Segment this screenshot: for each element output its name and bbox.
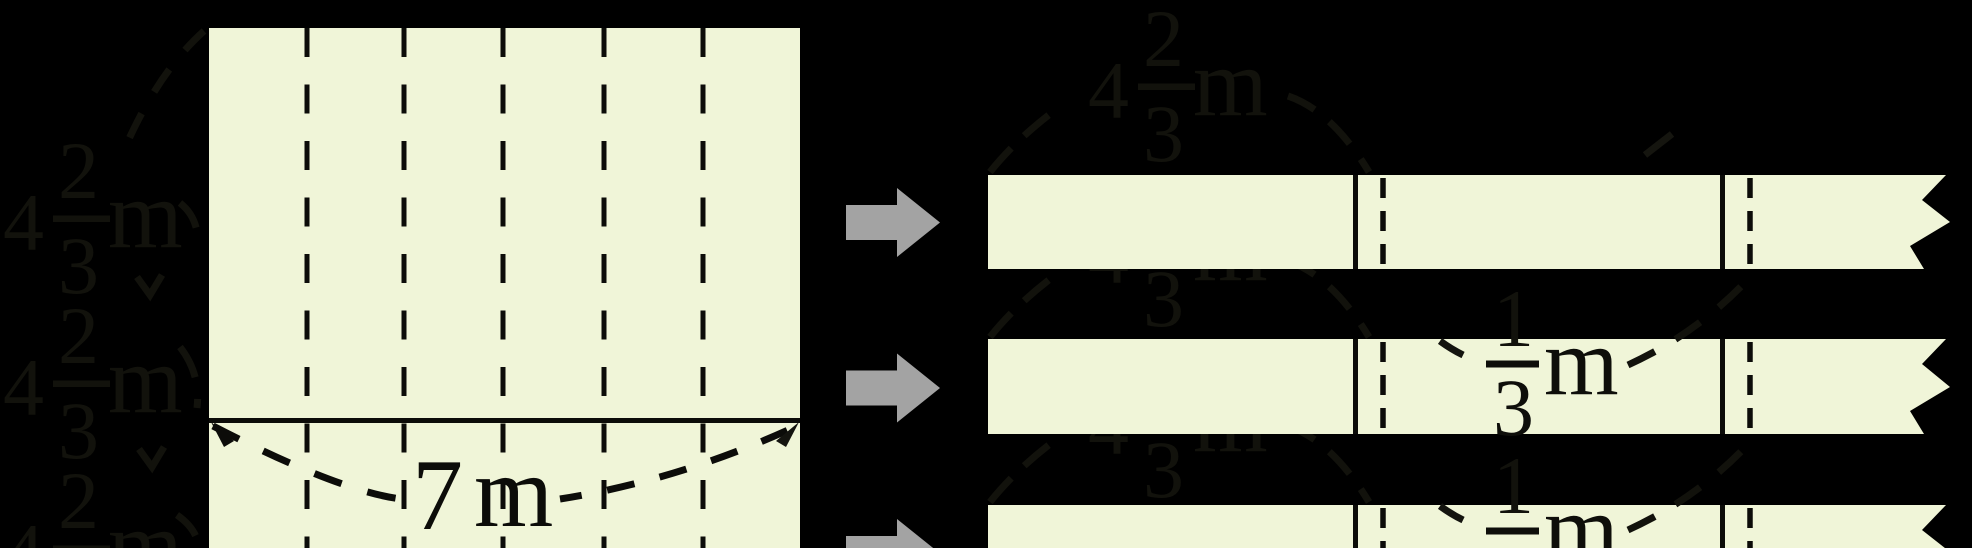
row3 1/3 arc left dash	[1440, 506, 1484, 528]
svg-text:4: 4	[3, 177, 44, 268]
left label row1: 4 2/3 m	[3, 125, 183, 311]
strip1 solid divider 1	[1353, 175, 1358, 269]
row2 label 4 2/3 m (top hidden behind strip 1)	[1088, 158, 1268, 344]
gray arrow 3 (cut)	[846, 519, 940, 548]
row1 brace arc right	[1288, 96, 1369, 172]
svg-text:2: 2	[1143, 0, 1184, 84]
strip1 dashed divider 2	[1747, 178, 1753, 269]
svg-text:3: 3	[1143, 424, 1184, 515]
arc segment right of m, label1	[180, 203, 197, 232]
row3 1/3 arc right rising to strip2	[1628, 440, 1752, 530]
strip1 solid divider 2	[1720, 175, 1725, 269]
left label row2: 4 2/3 m	[3, 290, 183, 476]
gray arrow 1	[846, 188, 940, 257]
svg-text:m: m	[108, 161, 183, 268]
row1 brace arc left	[990, 105, 1062, 172]
svg-text:m: m	[1193, 29, 1268, 136]
dashed arc from rect corner to left label 1	[124, 31, 204, 150]
row2 1/3 arc left dash	[1440, 341, 1484, 363]
arc segment right of m, label2	[180, 347, 198, 408]
svg-text:m: m	[1544, 308, 1619, 415]
row 1 group	[988, 0, 1950, 269]
dashed column line 3	[501, 28, 506, 548]
svg-text:m: m	[108, 491, 183, 548]
strip2 dashed divider 1	[1380, 342, 1386, 434]
dashed column line 2	[402, 28, 407, 548]
dashed column line 1	[305, 28, 310, 548]
svg-text:2: 2	[58, 290, 99, 381]
svg-text:4: 4	[1088, 45, 1129, 136]
big rectangle fill	[209, 28, 800, 548]
svg-text:2: 2	[58, 455, 99, 546]
arc segment right of m, label3	[177, 515, 199, 548]
row 3 group	[988, 329, 1950, 548]
row3 brace arc left	[990, 435, 1062, 502]
dashed column line 4	[602, 28, 607, 548]
svg-text:m: m	[108, 326, 183, 433]
strip3 dashed divider 2	[1747, 508, 1753, 548]
row1 faint diagonal dash	[1645, 134, 1672, 155]
strip 3 fill	[988, 505, 1950, 548]
row3 label 4 2/3 m (mostly hidden)	[1088, 329, 1268, 515]
svg-text:m: m	[474, 436, 553, 548]
svg-text:m: m	[1544, 475, 1619, 548]
7m arc right arrowhead	[776, 422, 799, 447]
svg-text:3: 3	[1493, 362, 1534, 453]
strip3 solid divider 1	[1353, 505, 1358, 548]
strip2 solid divider 2	[1720, 339, 1725, 434]
strip3 solid divider 2	[1720, 505, 1725, 548]
solid horizontal row line	[209, 418, 800, 423]
gray arrow 2	[846, 354, 940, 423]
row3 brace arc right	[1288, 426, 1369, 502]
7m arc left arrowhead	[211, 422, 234, 447]
row2 brace arc right	[1288, 261, 1369, 337]
svg-text:1: 1	[1493, 440, 1534, 531]
dashed 7m arc right part	[560, 426, 797, 499]
row2 label 1/3 m	[1486, 273, 1619, 453]
strip1 dashed divider 1	[1380, 178, 1386, 269]
left label row3: 4 2/3 m (cut off at bottom)	[3, 455, 183, 548]
row3 label 1/3 m	[1486, 440, 1619, 548]
strip3 dashed divider 1	[1380, 508, 1386, 548]
row 2 group	[988, 158, 1950, 453]
strip 1 fill	[988, 175, 1950, 269]
svg-text:4: 4	[3, 342, 44, 433]
svg-text:4: 4	[3, 507, 44, 548]
chevron arrowhead below label2	[139, 447, 164, 467]
strip2 solid divider 1	[1353, 339, 1358, 434]
svg-text:3: 3	[1493, 529, 1534, 548]
strip2 dashed divider 2	[1747, 342, 1753, 434]
svg-text:1: 1	[1493, 273, 1534, 364]
dashed 7m arc left part	[213, 426, 412, 500]
chevron arrowhead below label1	[137, 275, 162, 295]
svg-text:2: 2	[58, 125, 99, 216]
row2 brace arc left	[990, 270, 1062, 337]
row1 label 4 2/3 m	[1088, 0, 1268, 179]
svg-text:7: 7	[412, 439, 463, 548]
strip 2 fill	[988, 339, 1950, 434]
row2 1/3 arc right rising to strip1	[1628, 275, 1752, 365]
dashed column line 5	[701, 28, 706, 548]
svg-text:3: 3	[1143, 88, 1184, 179]
